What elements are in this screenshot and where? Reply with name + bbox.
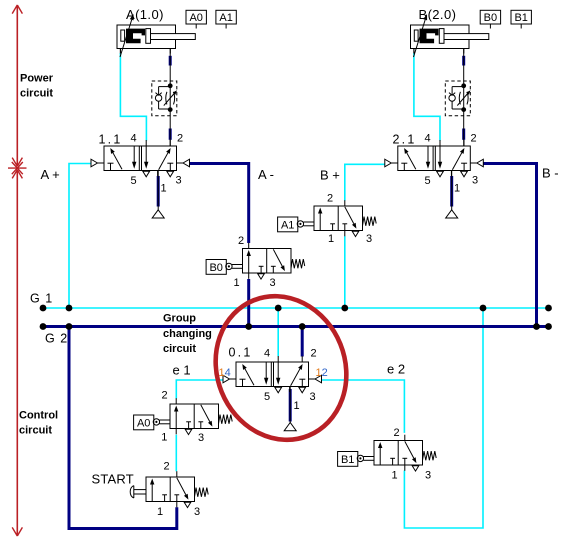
svg-text:1: 1 [233, 277, 239, 289]
svg-text:2: 2 [393, 427, 399, 439]
svg-text:3: 3 [366, 233, 372, 245]
valve START exhaust triangle port 3 [184, 502, 191, 507]
compressed air supply below valve 0.1 [284, 423, 296, 431]
wire A- : valve 1.1 right pilot to valve B0 port 2 (navy) [190, 164, 249, 244]
valve B1 port stubs [404, 435, 406, 471]
valve 1.1 5/2-way body [104, 146, 177, 171]
svg-text:B1: B1 [514, 12, 527, 24]
valve A1 3/2-way body [314, 206, 363, 231]
valve 1.1 exhaust triangles ports 5 and 3 [143, 171, 174, 177]
proximity label box B1 [511, 10, 531, 28]
valve 0.1 left pilot [223, 375, 236, 383]
wire valve A1 port 1 down to G1 (cyan) [344, 236, 346, 308]
svg-text:2.1: 2.1 [393, 133, 417, 147]
svg-text:2: 2 [161, 390, 167, 402]
valve A1 actuator roller circle [297, 221, 303, 227]
svg-text:2: 2 [310, 348, 316, 360]
valve A0 return spring [219, 415, 233, 424]
wire e1: valve A0 port 2 to valve 0.1 left pilot (cyan) [176, 380, 223, 399]
valve START return spring [195, 488, 209, 497]
valve 2.1 port stubs [440, 140, 464, 176]
svg-text:A +: A + [41, 167, 60, 182]
compressed air supply below valve 2.1 [446, 210, 458, 218]
svg-text:G 1: G 1 [30, 292, 53, 306]
valve START port number labels [157, 461, 200, 519]
valve A1 return spring [363, 217, 377, 226]
wire cylinder A cap-side upper segment (navy) [169, 56, 172, 66]
line cylinder B rod-side stub [413, 49, 415, 54]
svg-text:2: 2 [470, 133, 476, 145]
line valve 2.1 port 1 to supply symbol [451, 171, 453, 210]
valve A1 exhaust triangle port 3 [352, 231, 359, 236]
svg-text:e 1: e 1 [173, 363, 191, 378]
cylinder A (1.0) piston plate and rod [146, 29, 196, 44]
valve B0 actuator lever [232, 265, 243, 269]
wire e2: valve 0.1 right pilot to valve B1 port 2 (cyan) [322, 380, 405, 433]
svg-text:3: 3 [198, 432, 204, 444]
svg-text:3: 3 [194, 506, 200, 518]
one-way flow control valve A dashed enclosure [152, 81, 177, 116]
svg-text:2: 2 [327, 193, 333, 205]
line valve 1.1 port 1 to supply symbol [157, 171, 159, 210]
svg-text:A0: A0 [189, 12, 202, 24]
valve A0 exhaust triangle port 3 [185, 429, 192, 434]
svg-text:1: 1 [391, 470, 397, 482]
flow control A branch junction dots [168, 83, 173, 112]
svg-text:1: 1 [454, 183, 460, 195]
red highlight ellipse around group changing valve 0.1 [194, 276, 367, 459]
svg-text:A1: A1 [219, 12, 232, 24]
valve 2.1 left pilot [385, 159, 398, 167]
valve 0.1 port stubs [278, 356, 302, 392]
valve B0 port stubs [248, 243, 250, 279]
valve A0 3/2-way body [170, 404, 219, 429]
cylinder B (2.0) label pointer arrow [414, 20, 426, 57]
svg-text:circuit: circuit [19, 425, 52, 437]
svg-text:Power: Power [20, 73, 54, 85]
svg-text:B1: B1 [341, 454, 354, 466]
valve 1.1 right pilot [177, 159, 190, 167]
svg-text:B0: B0 [484, 12, 497, 24]
valve A0 port number labels [161, 390, 204, 445]
wire cylinder B cap-side upper segment (navy) [462, 56, 465, 66]
junction dots on G2 bus [40, 323, 552, 330]
svg-text:2: 2 [238, 235, 244, 247]
wire G1 to valve 0.1 port 4 (cyan) [277, 308, 279, 356]
valve 0.1 pilot port labels 14 and 12 [219, 367, 328, 379]
dimension boundary cross mark [8, 162, 27, 174]
proximity label box A0 [186, 10, 206, 28]
valve B1 label box B1 [338, 452, 358, 467]
valve B0 exhaust triangle port 3 [258, 274, 265, 279]
valve B1 port number labels [391, 427, 431, 482]
svg-text:5: 5 [424, 175, 430, 187]
flow control A bypass branch with check valve [155, 87, 170, 109]
valve 2.1 exhaust triangles ports 5 and 3 [437, 171, 468, 177]
valve B1 return spring [423, 451, 437, 460]
compressed air supply below valve 1.1 [152, 210, 164, 218]
valve A1 port number labels [327, 193, 372, 246]
proximity label box B0 [480, 10, 500, 28]
svg-text:A(1.0): A(1.0) [126, 7, 164, 22]
flow control B throttle [457, 90, 470, 105]
svg-text:Control: Control [19, 410, 58, 422]
valve START push-button actuator [130, 486, 146, 498]
valve A0 actuator roller circle [153, 419, 159, 425]
svg-text:e 2: e 2 [387, 362, 405, 377]
valve B0 label box B0 [206, 260, 226, 275]
wire G1 supply down-around to valve B1 port 1 (cyan) [404, 308, 483, 528]
valve B0 actuator roller circle [226, 263, 232, 269]
valve 0.1 port number labels [264, 348, 317, 413]
svg-text:B0: B0 [209, 262, 222, 274]
label Control circuit [19, 410, 58, 437]
svg-text:1: 1 [293, 400, 299, 412]
one-way flow control valve B dashed enclosure [445, 81, 470, 116]
cylinder A (1.0) label pointer arrow [120, 20, 132, 57]
valve START 3/2-way body [146, 477, 195, 502]
svg-text:5: 5 [130, 175, 136, 187]
valve B1 exhaust triangle port 3 [412, 466, 419, 471]
valve A0 port stubs [175, 398, 177, 434]
valve 2.1 right pilot [470, 159, 483, 167]
svg-text:1: 1 [161, 432, 167, 444]
bus line G2 (navy) [43, 325, 549, 328]
wire valve A1 port 2 to valve 2.1 left pilot B+ (cyan) [345, 164, 385, 200]
cylinder A (1.0) port stubs [120, 49, 170, 54]
flow control A throttle [164, 90, 177, 105]
svg-text:B -: B - [542, 166, 559, 181]
svg-text:12: 12 [316, 367, 328, 379]
valve 0.1 exhaust triangles ports 5 and 3 [275, 387, 306, 393]
svg-text:0.1: 0.1 [229, 346, 253, 360]
valve B1 actuator roller circle [357, 455, 363, 461]
svg-text:2: 2 [163, 461, 169, 473]
wire G2 to bottom supply rail and START valve port 1 (navy) [69, 327, 177, 529]
valve 1.1 left pilot [91, 159, 104, 167]
svg-text:G 2: G 2 [45, 332, 68, 346]
svg-text:3: 3 [309, 391, 315, 403]
svg-text:B(2.0): B(2.0) [419, 7, 457, 22]
svg-text:4: 4 [424, 133, 430, 145]
svg-text:4: 4 [264, 348, 270, 360]
svg-text:1: 1 [160, 183, 166, 195]
wire flow control A to valve 1.1 port 2 (navy) [169, 129, 172, 140]
valve A0 label box A0 [134, 415, 154, 430]
cylinder A (1.0) magnetic piston [126, 29, 145, 44]
valve 2.1 5/2-way body [398, 146, 471, 171]
valve 2.1 port number labels [424, 133, 478, 195]
wire valve 2.1 port 1 supply (navy) [450, 176, 453, 207]
valve A1 label box A1 [278, 217, 298, 232]
valve 0.1 5/2-way body [236, 362, 309, 387]
cylinder A (1.0) body [117, 25, 176, 49]
valve 1.1 port number labels [130, 133, 183, 195]
wire A+ pilot line valve 1.1 (cyan) [69, 164, 91, 309]
wire flow control B to valve 2.1 port 2 (navy) [462, 129, 465, 140]
svg-text:3: 3 [269, 277, 275, 289]
line valve 0.1 port 1 to supply symbol [289, 387, 291, 423]
wire cylinder B rod-side to valve 2.1 port 4 (cyan) [414, 53, 440, 141]
cylinder B (2.0) magnetic piston [420, 29, 439, 44]
label Power circuit [20, 73, 54, 100]
svg-text:Group: Group [163, 312, 196, 324]
line cylinder A cap-side to flow control A to valve 1.1 (black core) [169, 49, 171, 147]
valve B0 port number labels [233, 235, 275, 289]
bus line G1 (cyan) [43, 307, 549, 309]
wire cylinder A rod-side to valve 1.1 port 4 (cyan) [120, 53, 146, 141]
wire G2 to valve 0.1 port 2 (navy) [301, 327, 304, 357]
svg-text:3: 3 [425, 470, 431, 482]
control circuit dimension line (red, lower) [12, 170, 22, 536]
valve A0 actuator lever [160, 420, 171, 424]
proximity label box A1 [216, 10, 236, 28]
valve 0.1 right pilot [309, 375, 322, 383]
valve 1.1 port stubs [146, 140, 170, 176]
svg-text:B +: B + [320, 168, 340, 183]
cylinder B (2.0) port stubs [414, 49, 464, 54]
svg-text:14: 14 [219, 367, 231, 379]
label Group changing circuit [163, 312, 212, 355]
valve START port stubs [176, 471, 178, 507]
svg-text:3: 3 [175, 175, 181, 187]
wire valve 1.1 port 1 supply (navy) [157, 176, 160, 207]
junction dots on G1 bus [40, 305, 552, 312]
valve B0 return spring [291, 259, 305, 268]
flow control B branch junction dots [461, 83, 466, 112]
svg-text:A -: A - [258, 167, 274, 182]
cylinder B (2.0) piston plate and rod [439, 29, 489, 44]
svg-text:circuit: circuit [20, 88, 53, 100]
wire valve A0 port 1 to START valve port 2 (cyan) [175, 435, 177, 472]
wire valve B0 port 1 down to G2 (navy) [247, 279, 250, 327]
flow control B bypass branch with check valve [449, 87, 464, 109]
svg-text:START: START [92, 472, 134, 487]
svg-text:3: 3 [472, 175, 478, 187]
svg-text:1.1: 1.1 [99, 133, 123, 147]
line cylinder A rod-side stub [119, 49, 121, 54]
valve A1 actuator lever [304, 222, 315, 226]
wire valve 0.1 port 1 supply (navy) [289, 389, 292, 422]
svg-text:5: 5 [264, 391, 270, 403]
power circuit dimension line (red, upper) [12, 5, 22, 166]
line cylinder B cap-side to flow control B to valve 2.1 (black core) [463, 49, 465, 147]
svg-text:1: 1 [328, 233, 334, 245]
wire B- : valve 2.1 right pilot to G2 (navy) [483, 164, 537, 327]
valve B1 3/2-way body [374, 441, 423, 466]
valve A1 port stubs [344, 200, 346, 236]
svg-text:changing: changing [163, 328, 212, 340]
svg-text:1: 1 [157, 506, 163, 518]
svg-text:A0: A0 [137, 417, 150, 429]
svg-text:4: 4 [130, 133, 136, 145]
svg-text:A1: A1 [281, 219, 294, 231]
svg-text:2: 2 [177, 133, 183, 145]
valve B0 3/2-way body [243, 249, 292, 274]
valve B1 actuator lever [364, 457, 375, 461]
svg-text:circuit: circuit [163, 343, 196, 355]
cylinder B (2.0) body [411, 25, 470, 49]
